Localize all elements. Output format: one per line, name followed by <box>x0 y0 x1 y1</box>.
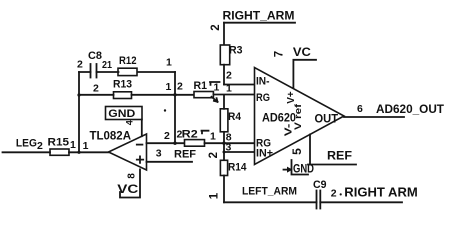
svg-text:RG: RG <box>256 92 270 104</box>
wire R13 branch <box>79 94 194 96</box>
resistor R4 <box>220 109 228 132</box>
svg-text:2: 2 <box>331 188 337 200</box>
wire VC pin <box>120 169 140 197</box>
svg-text:1: 1 <box>214 82 220 94</box>
svg-text:IN-: IN- <box>256 76 270 88</box>
svg-text:R13: R13 <box>113 79 132 91</box>
wire IN+ <box>224 151 255 153</box>
junction dot B <box>173 142 176 145</box>
svg-text:3: 3 <box>156 147 162 159</box>
svg-text:R12: R12 <box>119 55 137 67</box>
svg-text:LEFT_ARM: LEFT_ARM <box>242 186 297 198</box>
svg-text:2: 2 <box>226 70 232 82</box>
junction dot D <box>223 151 226 154</box>
svg-text:RIGHT ARM: RIGHT ARM <box>344 186 418 200</box>
power GND (TL082 top) <box>106 107 143 120</box>
junction dot A <box>173 93 176 96</box>
wire GND/REF <box>308 164 356 166</box>
svg-text:GND: GND <box>108 108 135 120</box>
svg-text:R3: R3 <box>229 45 243 57</box>
resistor R14 <box>220 160 227 175</box>
svg-text:21: 21 <box>102 59 112 71</box>
svg-text:2: 2 <box>164 130 170 142</box>
svg-text:1: 1 <box>226 83 232 95</box>
svg-text:R15: R15 <box>48 137 70 149</box>
wire TL082 pin3 <box>147 161 193 163</box>
wire GND pin <box>141 120 143 137</box>
svg-text:1: 1 <box>166 81 172 93</box>
svg-text:2: 2 <box>210 24 222 30</box>
wire R3 to IN- <box>223 65 225 85</box>
wire R4 top <box>223 95 225 109</box>
svg-text:VC: VC <box>293 45 311 59</box>
resistor R3 <box>220 45 229 65</box>
wire R14 bottom <box>223 176 225 203</box>
svg-text:2: 2 <box>93 83 99 95</box>
svg-text:2: 2 <box>177 129 183 141</box>
svg-text:6: 6 <box>357 103 363 115</box>
svg-text:OUT: OUT <box>315 112 339 126</box>
svg-text:R14: R14 <box>228 162 247 174</box>
junction dot <box>340 193 342 195</box>
svg-text:AD620_OUT: AD620_OUT <box>376 102 445 116</box>
svg-text:V ref: V ref <box>293 103 304 130</box>
svg-text:1: 1 <box>70 139 76 151</box>
svg-text:C9: C9 <box>313 179 327 191</box>
wire RIGHT_ARM to R3 <box>223 23 225 45</box>
svg-text:2: 2 <box>37 140 43 152</box>
wire LEG line <box>3 151 109 153</box>
tick mark after R2 <box>202 131 209 134</box>
resistor R12 <box>118 68 137 75</box>
svg-text:1: 1 <box>210 131 216 143</box>
svg-text:1: 1 <box>209 192 221 199</box>
tick mark after R1 <box>210 82 220 85</box>
svg-text:2: 2 <box>77 59 83 71</box>
junction dot F <box>164 109 166 111</box>
resistor R15 <box>50 149 69 155</box>
junction dot C <box>222 142 225 145</box>
wire left feedback vertical <box>78 72 80 152</box>
svg-text:R2: R2 <box>182 129 198 141</box>
svg-text:4: 4 <box>125 120 135 125</box>
wire R1 to RG pin1 <box>213 94 254 96</box>
resistor R2 <box>185 140 205 147</box>
wire pin5 <box>309 135 311 165</box>
svg-text:V+: V+ <box>286 91 297 104</box>
svg-text:R1: R1 <box>194 80 208 92</box>
wire TL082 pin2 <box>147 142 185 144</box>
wire bottom rail right <box>320 201 402 203</box>
svg-text:REF: REF <box>327 149 352 163</box>
plus sign <box>137 156 143 162</box>
svg-text:GND: GND <box>293 161 314 175</box>
svg-text:2: 2 <box>208 152 220 158</box>
wire bottom rail left <box>224 201 317 203</box>
svg-text:2: 2 <box>177 81 183 93</box>
svg-text:1: 1 <box>166 57 172 69</box>
svg-text:AD620: AD620 <box>262 111 296 125</box>
wire R2 to RG pin8 <box>205 142 255 144</box>
resistor R1 <box>194 92 213 98</box>
svg-text:LEG: LEG <box>16 138 37 150</box>
svg-text:RIGHT_ARM: RIGHT_ARM <box>223 8 295 22</box>
svg-text:8: 8 <box>127 173 138 179</box>
svg-text:REF: REF <box>174 149 196 161</box>
wire IN- <box>224 84 255 86</box>
svg-text:1: 1 <box>83 140 89 152</box>
wire R4 bottom <box>223 132 225 161</box>
svg-text:5: 5 <box>290 148 304 155</box>
op-amp U1 AD620 <box>255 68 345 165</box>
junction dot E <box>77 93 80 96</box>
wire AD620 output <box>344 116 404 118</box>
wire RIGHT_ARM horizontal <box>224 22 295 24</box>
ground GND (AD620) <box>284 169 289 171</box>
minus sign <box>137 144 143 146</box>
resistor R13 <box>114 92 132 99</box>
wire C8/R12 branch <box>79 71 175 73</box>
svg-text:R4: R4 <box>228 111 242 123</box>
svg-text:7: 7 <box>274 51 286 57</box>
svg-text:C8: C8 <box>88 50 102 62</box>
svg-text:TL082A: TL082A <box>90 129 132 143</box>
op-amp U2 TL082A <box>109 134 147 170</box>
svg-text:IN+: IN+ <box>256 148 273 160</box>
wire VC <box>293 60 316 88</box>
wire right feedback vertical <box>174 72 176 143</box>
tick mark below R1 pin1 <box>212 97 218 102</box>
